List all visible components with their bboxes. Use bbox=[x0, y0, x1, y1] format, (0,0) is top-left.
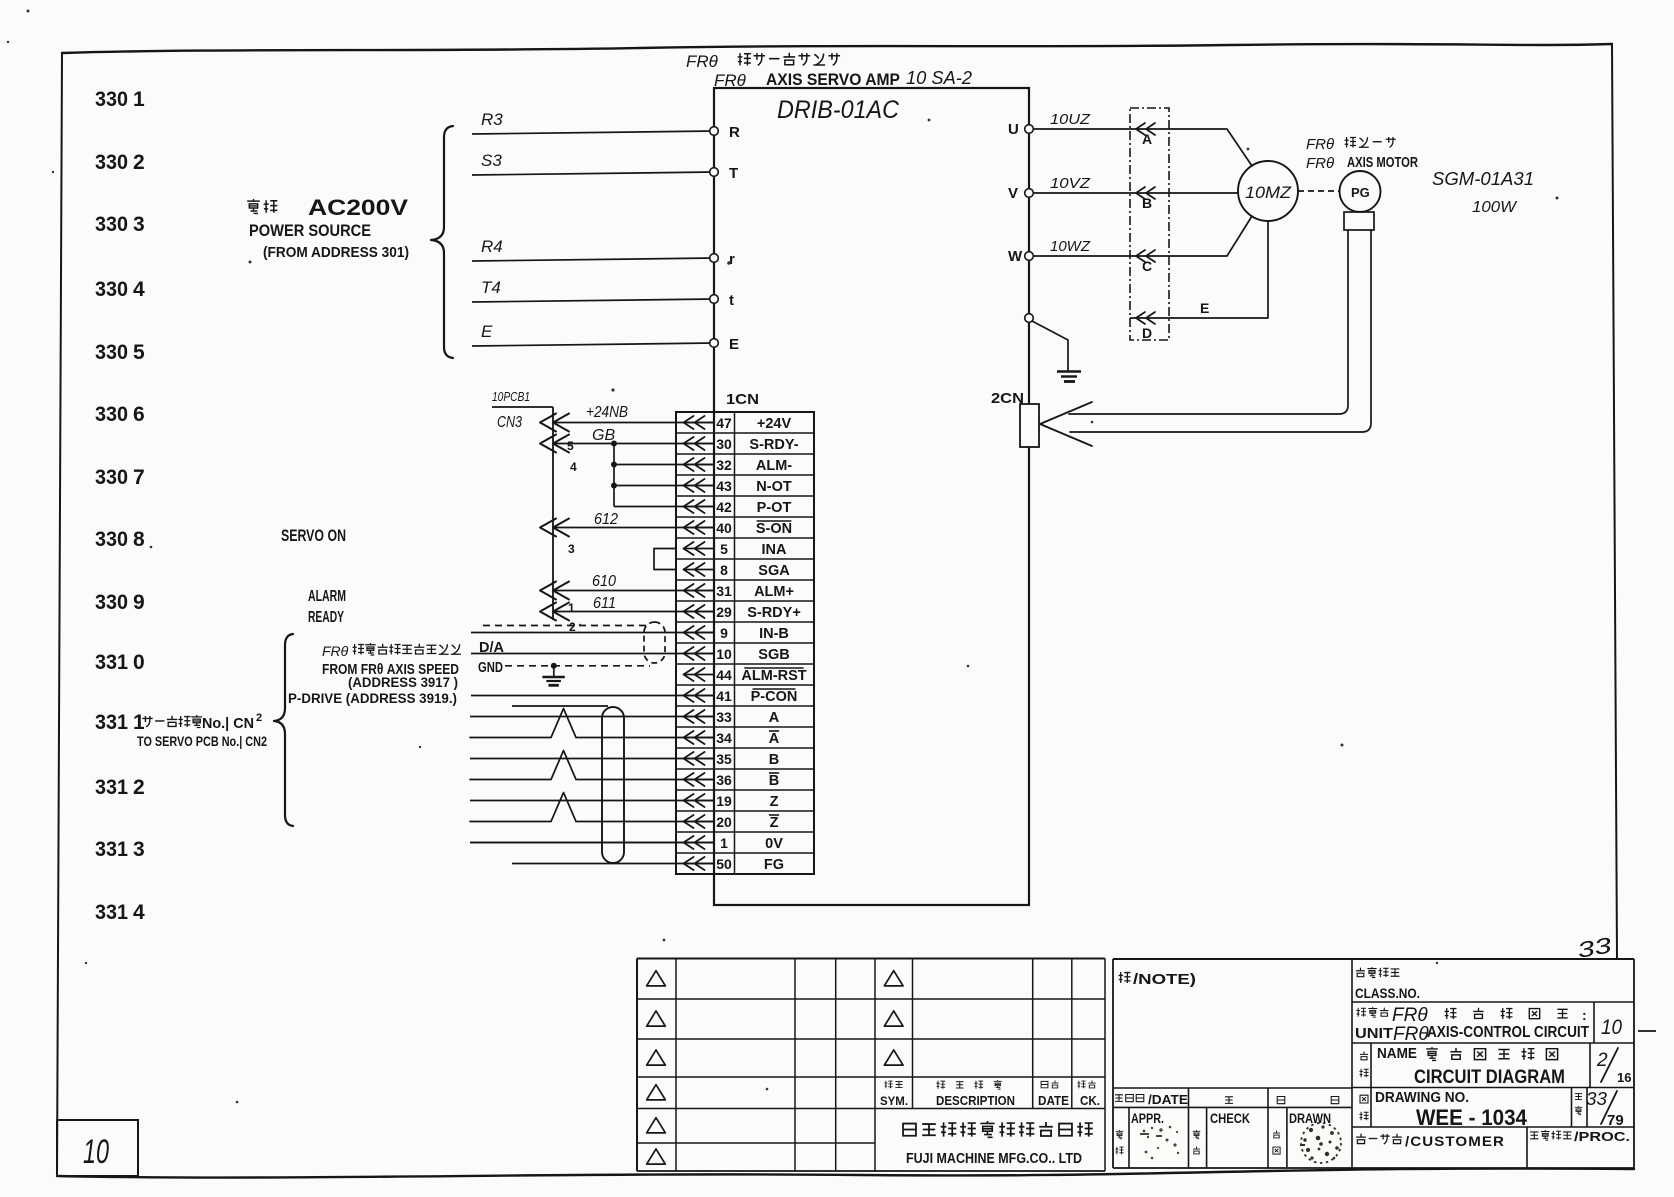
wire phase U to motor bbox=[1169, 129, 1252, 166]
svg-text:31: 31 bbox=[716, 583, 732, 599]
svg-text:50: 50 bbox=[716, 856, 732, 872]
svg-text:36: 36 bbox=[716, 772, 732, 788]
svg-text:(ADDRESS 3917 ): (ADDRESS 3917 ) bbox=[348, 675, 458, 690]
svg-text:330: 330 bbox=[95, 151, 128, 174]
svg-text:S3: S3 bbox=[481, 151, 502, 170]
encoder shield drain wire bbox=[512, 705, 608, 707]
svg-text:TO SERVO PCB No.| CN2: TO SERVO PCB No.| CN2 bbox=[137, 733, 267, 749]
svg-text:IN-B: IN-B bbox=[759, 626, 789, 642]
label サーボ基板No.1 CN2 bbox=[142, 712, 262, 732]
label 100W bbox=[1472, 199, 1518, 216]
2CN connector arrow bbox=[1040, 402, 1092, 446]
1CN pin 19 Z bbox=[683, 793, 779, 810]
svg-text:B: B bbox=[769, 752, 779, 768]
svg-text:0V: 0V bbox=[765, 836, 783, 852]
wire phase W to motor bbox=[1169, 216, 1252, 256]
svg-text:8: 8 bbox=[133, 528, 145, 551]
svg-text:FRθ: FRθ bbox=[1392, 1005, 1428, 1026]
svg-text:6: 6 bbox=[133, 403, 145, 426]
svg-text:AXIS-CONTROL CIRCUIT: AXIS-CONTROL CIRCUIT bbox=[1427, 1024, 1589, 1041]
svg-text:10: 10 bbox=[83, 1133, 109, 1171]
svg-text:No.| CN: No.| CN bbox=[202, 715, 254, 732]
svg-text:331: 331 bbox=[95, 651, 128, 674]
svg-text:2: 2 bbox=[133, 151, 145, 174]
svg-text:40: 40 bbox=[716, 520, 732, 536]
svg-text:330: 330 bbox=[95, 88, 128, 111]
svg-text:AC200V: AC200V bbox=[308, 195, 408, 220]
1CN pin 50 FG bbox=[683, 856, 784, 873]
svg-text:FG: FG bbox=[764, 857, 784, 873]
svg-text:41: 41 bbox=[716, 688, 732, 704]
svg-text:C: C bbox=[1142, 258, 1152, 274]
svg-text:330: 330 bbox=[95, 466, 128, 489]
svg-text:+24NB: +24NB bbox=[586, 404, 628, 421]
svg-text:44: 44 bbox=[716, 667, 732, 683]
svg-text:ALARM: ALARM bbox=[308, 588, 346, 605]
check label bbox=[1193, 1111, 1250, 1154]
1CN pin 42 P-OT bbox=[683, 499, 791, 516]
wire R4 to terminal r bbox=[472, 237, 714, 261]
wire S3 to terminal T bbox=[472, 151, 714, 175]
svg-text:7: 7 bbox=[133, 466, 145, 489]
wire phase V to motor bbox=[1169, 192, 1238, 194]
svg-text:V: V bbox=[1008, 185, 1018, 202]
svg-text:t: t bbox=[729, 292, 734, 309]
node address 3302 bbox=[95, 151, 145, 174]
node address 3304 bbox=[95, 278, 145, 301]
node address 3311 bbox=[95, 711, 145, 734]
svg-text:(FROM ADDRESS 301): (FROM ADDRESS 301) bbox=[263, 244, 409, 261]
wire encoder A pin33 bbox=[470, 716, 714, 718]
svg-text:FRθ: FRθ bbox=[1393, 1024, 1429, 1045]
label 10PCB1 bbox=[492, 389, 553, 407]
power source brace bbox=[431, 126, 453, 358]
svg-text:NAME: NAME bbox=[1377, 1046, 1417, 1062]
revision header DATE bbox=[1038, 1081, 1069, 1108]
node address 3303 bbox=[95, 213, 145, 236]
node address 3306 bbox=[95, 403, 145, 426]
ground symbol at amp E2 terminal bbox=[1032, 321, 1081, 382]
svg-text:CIRCUIT DIAGRAM: CIRCUIT DIAGRAM bbox=[1414, 1067, 1565, 1088]
svg-text:B: B bbox=[1142, 195, 1152, 211]
terminal t of servo amp bbox=[710, 292, 734, 309]
svg-text:S-ON: S-ON bbox=[756, 521, 792, 537]
svg-text:R: R bbox=[729, 124, 740, 141]
year month day header bbox=[1225, 1097, 1339, 1104]
svg-text:32: 32 bbox=[716, 457, 732, 473]
svg-text:610: 610 bbox=[592, 573, 616, 590]
svg-text:E: E bbox=[481, 322, 493, 341]
svg-text:3: 3 bbox=[133, 213, 145, 236]
svg-text:331: 331 bbox=[95, 711, 128, 734]
power source label (FROM ADDRESS 301) bbox=[263, 244, 409, 261]
svg-text:4: 4 bbox=[133, 901, 145, 924]
svg-text:P-CON: P-CON bbox=[751, 689, 798, 705]
svg-text:A: A bbox=[1142, 131, 1152, 147]
page 33/79 bbox=[1575, 1089, 1624, 1129]
title block grid bbox=[1352, 1002, 1634, 1168]
1CN pin 44 ALM-RST bbox=[683, 667, 807, 684]
PG coupling box bbox=[1344, 212, 1374, 230]
INA-SGA jumper bbox=[654, 549, 676, 570]
label GND bbox=[478, 660, 503, 676]
svg-text:ALM-RST: ALM-RST bbox=[741, 668, 806, 684]
svg-text:29: 29 bbox=[716, 604, 732, 620]
svg-text:34: 34 bbox=[716, 730, 732, 746]
svg-text:UNIT: UNIT bbox=[1355, 1026, 1393, 1042]
svg-text:/PROC.: /PROC. bbox=[1574, 1129, 1630, 1144]
revision table grid bbox=[637, 959, 1105, 1172]
svg-text:Z: Z bbox=[770, 794, 779, 810]
label FRθ 軸サーボアンプ bbox=[686, 52, 840, 71]
wire 0V pin1 bbox=[470, 842, 714, 844]
label CN3 bbox=[497, 414, 522, 431]
svg-text:R4: R4 bbox=[481, 237, 503, 256]
svg-text:10: 10 bbox=[1601, 1016, 1622, 1039]
apprv label bbox=[1115, 1111, 1164, 1154]
1CN pin 20 Z bbox=[683, 814, 779, 831]
svg-text:9: 9 bbox=[720, 625, 728, 641]
svg-text:INA: INA bbox=[762, 542, 788, 558]
svg-text:r: r bbox=[729, 251, 735, 268]
svg-text:SERVO ON: SERVO ON bbox=[281, 526, 346, 545]
svg-text:3: 3 bbox=[133, 838, 145, 861]
company name 富士機械製造株式会社 bbox=[903, 1121, 1093, 1137]
terminal U of servo amp bbox=[1008, 121, 1033, 138]
svg-text:10WZ: 10WZ bbox=[1050, 238, 1091, 255]
svg-text:+24V: +24V bbox=[757, 416, 792, 432]
svg-text:5: 5 bbox=[133, 341, 145, 364]
1CN pin 33 A bbox=[683, 709, 780, 726]
1CN pin 8 SGA bbox=[683, 562, 790, 579]
1CN pin 43 N-OT bbox=[683, 478, 792, 495]
wire motor to PG (dashed) bbox=[1298, 190, 1339, 192]
svg-text:AXIS SERVO AMP: AXIS SERVO AMP bbox=[766, 70, 900, 89]
svg-text:79: 79 bbox=[1607, 1112, 1624, 1129]
class no label bbox=[1355, 967, 1420, 1001]
label FRθ AXIS SERVO AMP 10 SA-2 bbox=[714, 68, 972, 90]
svg-text:331: 331 bbox=[95, 901, 128, 924]
wire 10WZ bbox=[1033, 238, 1130, 256]
terminal E of servo amp bbox=[710, 336, 739, 353]
terminal strip pin D bbox=[1130, 312, 1169, 341]
power source label POWER SOURCE bbox=[249, 221, 371, 240]
svg-text:A: A bbox=[769, 731, 780, 747]
1CN pin 31 ALM+ bbox=[683, 583, 794, 600]
1CN pin 47 +24V bbox=[683, 415, 791, 432]
power source label 電源 AC200V bbox=[247, 195, 408, 220]
wire to pin10 SGB bbox=[471, 653, 714, 655]
revision header SYM bbox=[880, 1081, 908, 1108]
wire P-CON pin41 bbox=[471, 695, 714, 697]
svg-text:20: 20 bbox=[716, 814, 732, 830]
proc label bbox=[1530, 1129, 1630, 1144]
svg-text:CHECK: CHECK bbox=[1210, 1111, 1250, 1126]
svg-text:CLASS.NO.: CLASS.NO. bbox=[1355, 985, 1420, 1001]
D/A shield capsule (dashed) bbox=[644, 622, 665, 663]
PG cable wire 2 bbox=[1070, 230, 1371, 432]
svg-text:DESCRIPTION: DESCRIPTION bbox=[936, 1093, 1015, 1108]
svg-text:DRIB-01AC: DRIB-01AC bbox=[777, 96, 900, 124]
svg-text:5: 5 bbox=[720, 541, 728, 557]
terminal r of servo amp bbox=[710, 251, 735, 268]
wire +24NB pin5 bbox=[540, 404, 714, 453]
wire FG pin50 bbox=[512, 863, 714, 865]
svg-text:611: 611 bbox=[593, 595, 616, 612]
revision header DESCRIPTION bbox=[936, 1080, 1015, 1108]
svg-text:330: 330 bbox=[95, 528, 128, 551]
svg-text:SGM-01A31: SGM-01A31 bbox=[1432, 169, 1534, 189]
1CN pin 5 INA bbox=[683, 541, 787, 558]
svg-text:1: 1 bbox=[133, 88, 145, 111]
wire to pin32 ALM- bbox=[614, 464, 714, 466]
svg-text:E: E bbox=[729, 336, 739, 353]
svg-text:T4: T4 bbox=[481, 278, 501, 297]
wire encoder Z pin19 bbox=[470, 800, 714, 802]
svg-text:POWER SOURCE: POWER SOURCE bbox=[249, 221, 371, 240]
svg-text:ALM-: ALM- bbox=[756, 458, 792, 474]
1CN pin 10 SGB bbox=[683, 646, 790, 663]
label FRθ 軸速度指令出力より bbox=[322, 643, 461, 659]
svg-text:SGA: SGA bbox=[758, 563, 790, 579]
ground symbol at GND bbox=[542, 666, 564, 686]
svg-text:43: 43 bbox=[716, 478, 732, 494]
svg-text:P-OT: P-OT bbox=[757, 500, 792, 516]
label SGM-01A31 bbox=[1432, 169, 1534, 189]
drawn stamp bbox=[1300, 1123, 1341, 1163]
company name FUJI MACHINE MFG.CO.. LTD bbox=[906, 1151, 1082, 1167]
wire encoder B pin35 bbox=[470, 758, 714, 760]
terminal T of servo amp bbox=[710, 165, 738, 182]
svg-text:WEE - 1034: WEE - 1034 bbox=[1416, 1105, 1528, 1130]
svg-text:S-RDY+: S-RDY+ bbox=[747, 605, 801, 621]
1CN pin 9 IN-B bbox=[683, 625, 789, 642]
svg-text:8: 8 bbox=[720, 562, 728, 578]
svg-text:33: 33 bbox=[716, 709, 732, 725]
unit label bbox=[1355, 1005, 1589, 1045]
wire encoder Zbar pin20 with twist bbox=[470, 793, 714, 822]
node address 3308 bbox=[95, 528, 145, 551]
label FRθ AXIS MOTOR bbox=[1306, 155, 1418, 172]
node address 3301 bbox=[95, 88, 145, 111]
terminal strip pin A bbox=[1130, 123, 1169, 147]
name sheet 2/16 bbox=[1596, 1048, 1631, 1085]
svg-text:2: 2 bbox=[133, 776, 145, 799]
1CN pin 30 S-RDY- bbox=[683, 436, 799, 453]
junction GND node bbox=[551, 663, 557, 669]
svg-text:D: D bbox=[1142, 325, 1152, 341]
encoder PG bbox=[1340, 171, 1381, 212]
svg-text:FRθ: FRθ bbox=[322, 643, 349, 659]
wire 10UZ bbox=[1033, 111, 1130, 129]
svg-text:FRθ: FRθ bbox=[686, 52, 719, 71]
label DRIB-01AC bbox=[777, 96, 900, 124]
svg-text:330: 330 bbox=[95, 403, 128, 426]
svg-text:SGB: SGB bbox=[758, 647, 789, 663]
wire D/A to pin9 IN-B bbox=[471, 632, 714, 634]
svg-text:N-OT: N-OT bbox=[756, 479, 792, 495]
svg-text:ALM+: ALM+ bbox=[754, 584, 794, 600]
svg-text:16: 16 bbox=[1617, 1070, 1631, 1085]
motor terminal strip box bbox=[1130, 108, 1169, 340]
label FRθ 軸モータ bbox=[1306, 136, 1396, 153]
node address 3312 bbox=[95, 776, 145, 799]
1CN pin table grid bbox=[676, 412, 814, 874]
1CN pin 32 ALM- bbox=[683, 457, 792, 474]
node address 3310 bbox=[95, 651, 145, 674]
svg-text:DRAWING NO.: DRAWING NO. bbox=[1375, 1090, 1469, 1106]
svg-text:CK.: CK. bbox=[1080, 1094, 1100, 1108]
1CN pin 35 B bbox=[683, 751, 779, 768]
svg-text:30: 30 bbox=[716, 436, 732, 452]
label TO SERVO PCB No.1 CN2 bbox=[137, 733, 267, 749]
svg-text:GND: GND bbox=[478, 660, 503, 676]
svg-text:D/A: D/A bbox=[479, 640, 505, 656]
wire encoder Bbar pin36 with twist bbox=[470, 751, 714, 780]
revision mark triangles col2 bbox=[884, 971, 903, 1066]
SERVO ON label bbox=[281, 526, 346, 545]
svg-text:10MZ: 10MZ bbox=[1245, 183, 1292, 202]
svg-text:2: 2 bbox=[1596, 1050, 1608, 1071]
node address 3307 bbox=[95, 466, 145, 489]
wire R3 to terminal R bbox=[472, 110, 714, 134]
svg-text:2CN: 2CN bbox=[991, 390, 1024, 407]
CN2 brace bbox=[274, 634, 293, 826]
svg-text:4: 4 bbox=[133, 278, 145, 301]
svg-text:DATE: DATE bbox=[1038, 1094, 1069, 1108]
node address 3305 bbox=[95, 341, 145, 364]
encoder cable shield capsule bbox=[602, 707, 624, 863]
svg-text:PG: PG bbox=[1351, 185, 1370, 200]
svg-text:42: 42 bbox=[716, 499, 732, 515]
ALARM label bbox=[308, 588, 346, 605]
svg-text:SYM.: SYM. bbox=[880, 1094, 908, 1108]
revision mark triangles col1 bbox=[647, 971, 666, 1165]
svg-text:330: 330 bbox=[95, 278, 128, 301]
svg-text:CN3: CN3 bbox=[497, 414, 522, 431]
svg-text:AXIS MOTOR: AXIS MOTOR bbox=[1347, 155, 1418, 171]
node address 3313 bbox=[95, 838, 145, 861]
svg-text:331: 331 bbox=[95, 838, 128, 861]
1CN pin 36 B bbox=[683, 772, 779, 789]
svg-text:10: 10 bbox=[716, 646, 732, 662]
wire E motor frame ground bbox=[1169, 222, 1268, 318]
svg-text:A: A bbox=[769, 710, 780, 726]
svg-text:FUJI MACHINE MFG.CO.. LTD: FUJI MACHINE MFG.CO.. LTD bbox=[906, 1151, 1082, 1167]
svg-text:0: 0 bbox=[133, 651, 145, 674]
servo amp DRIB-01AC outline bbox=[714, 88, 1029, 905]
note label bbox=[1119, 971, 1196, 988]
wire T4 to terminal t bbox=[472, 278, 714, 302]
unit sheet number 10 bbox=[1601, 1016, 1656, 1039]
svg-text:330: 330 bbox=[95, 213, 128, 236]
svg-text:T: T bbox=[729, 165, 738, 182]
wire 612 S-ON pin3 bbox=[540, 511, 714, 556]
note box grid bbox=[1113, 959, 1634, 1168]
date row grid bbox=[1113, 1088, 1352, 1168]
svg-text:9: 9 bbox=[133, 591, 145, 614]
svg-text:B: B bbox=[769, 773, 779, 789]
svg-text:APPR.: APPR. bbox=[1131, 1111, 1164, 1126]
svg-text:4: 4 bbox=[570, 460, 577, 474]
terminal W of servo amp bbox=[1008, 248, 1033, 265]
svg-text:10PCB1: 10PCB1 bbox=[492, 389, 530, 404]
1CN pin 1 0V bbox=[683, 835, 783, 852]
wire to pin42 P-OT bbox=[614, 506, 714, 508]
1CN pin 40 S-ON bbox=[683, 520, 792, 537]
svg-text:330: 330 bbox=[95, 591, 128, 614]
svg-text:10 SA-2: 10 SA-2 bbox=[906, 68, 972, 88]
svg-text:330: 330 bbox=[95, 341, 128, 364]
1CN pin 41 P-CON bbox=[683, 688, 797, 705]
terminal R of servo amp bbox=[710, 124, 740, 141]
svg-text:W: W bbox=[1008, 248, 1023, 265]
svg-text:1: 1 bbox=[133, 711, 145, 734]
svg-text:10VZ: 10VZ bbox=[1050, 175, 1091, 192]
CN3 bus wire bbox=[552, 407, 554, 620]
svg-text:R3: R3 bbox=[481, 110, 503, 129]
1CN connector label bbox=[726, 391, 759, 408]
drawing no label bbox=[1359, 1090, 1527, 1130]
svg-text:100W: 100W bbox=[1472, 199, 1518, 216]
svg-text:FRθ: FRθ bbox=[714, 71, 747, 90]
svg-text:2: 2 bbox=[256, 712, 262, 724]
svg-text:35: 35 bbox=[716, 751, 732, 767]
handwritten 33 bbox=[1575, 932, 1614, 963]
svg-text:/DATE: /DATE bbox=[1148, 1092, 1188, 1107]
svg-text:/CUSTOMER: /CUSTOMER bbox=[1405, 1133, 1505, 1149]
wire encoder Abar pin34 with twist bbox=[470, 709, 714, 738]
drawn label bbox=[1273, 1111, 1331, 1154]
svg-text:1CN: 1CN bbox=[726, 391, 759, 408]
1CN pin 29 S-RDY+ bbox=[683, 604, 801, 621]
READY label bbox=[308, 609, 344, 626]
2CN connector bbox=[991, 390, 1039, 447]
node address 3309 bbox=[95, 591, 145, 614]
wire GB pin4 bbox=[540, 427, 714, 474]
label FROM FRθ AXIS SPEED bbox=[322, 662, 459, 678]
motor 10MZ bbox=[1238, 161, 1298, 221]
PG cable wire 1 bbox=[1069, 230, 1348, 414]
svg-text:FRθ: FRθ bbox=[1306, 136, 1334, 153]
page number box bbox=[57, 1120, 138, 1176]
apprv stamp bbox=[1140, 1126, 1179, 1160]
svg-text:612: 612 bbox=[594, 511, 618, 528]
name label bbox=[1359, 1046, 1565, 1088]
1CN pin 34 A bbox=[683, 730, 780, 747]
svg-text:E: E bbox=[1200, 300, 1209, 316]
wire 611 S-RDY+ pin2 bbox=[540, 595, 714, 634]
wire 610 ALM+ pin1 bbox=[540, 573, 714, 615]
svg-text:P-DRIVE (ADDRESS 3919.): P-DRIVE (ADDRESS 3919.) bbox=[288, 691, 457, 706]
svg-text::: : bbox=[1582, 1007, 1587, 1023]
junction GB node bbox=[611, 441, 617, 507]
svg-text:331: 331 bbox=[95, 776, 128, 799]
wire 10VZ bbox=[1033, 175, 1130, 193]
customer label bbox=[1356, 1133, 1505, 1149]
terminal V of servo amp bbox=[1008, 185, 1033, 202]
terminal E2 of servo amp (ground terminal) bbox=[1025, 314, 1034, 323]
label D/A bbox=[479, 640, 505, 656]
svg-text:10UZ: 10UZ bbox=[1050, 111, 1091, 128]
svg-text:U: U bbox=[1008, 121, 1019, 138]
svg-text:47: 47 bbox=[716, 415, 732, 431]
svg-text:S-RDY-: S-RDY- bbox=[749, 437, 798, 453]
node address 3314 bbox=[95, 901, 145, 924]
svg-text:33: 33 bbox=[1586, 1089, 1607, 1109]
svg-text:READY: READY bbox=[308, 609, 344, 626]
svg-text:FRθ: FRθ bbox=[1306, 155, 1334, 172]
